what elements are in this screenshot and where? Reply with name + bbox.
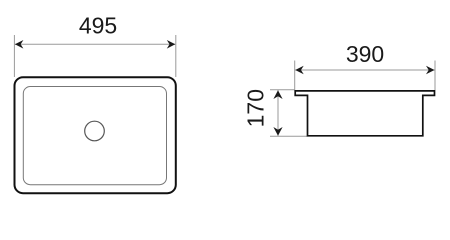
- right view: bottom extension line of 170: [270, 135, 307, 137]
- left view: basin inner rim (rounded rectangle): [23, 87, 166, 185]
- left view: extension line left: [13, 35, 15, 77]
- svg-text:495: 495: [79, 12, 117, 38]
- left view: drain hole circle: [85, 121, 105, 141]
- right view: arrow left of 390 dimension: [295, 66, 304, 75]
- left view: basin outer rim (rounded rectangle): [15, 77, 176, 193]
- left view: dimension line 495: [15, 43, 175, 45]
- right view: dimension line 390: [295, 69, 434, 71]
- left view: arrow left of 495 dimension: [15, 40, 24, 49]
- right view: extension line right of 390: [434, 61, 436, 91]
- svg-text:170: 170: [243, 89, 269, 127]
- svg-text:390: 390: [346, 41, 384, 67]
- right view: top extension line of 170: [270, 89, 295, 91]
- right view: arrow bottom of 170 dimension: [273, 127, 282, 136]
- left view: extension line right: [175, 35, 177, 77]
- right view: basin cross-section profile: [295, 91, 434, 136]
- right view: arrow right of 390 dimension: [426, 66, 435, 75]
- right view: extension line left of 390: [294, 61, 296, 91]
- right view: arrow top of 170 dimension: [273, 90, 282, 99]
- left view: arrow right of 495 dimension: [167, 40, 176, 49]
- right view: dimension line 170: [277, 90, 279, 136]
